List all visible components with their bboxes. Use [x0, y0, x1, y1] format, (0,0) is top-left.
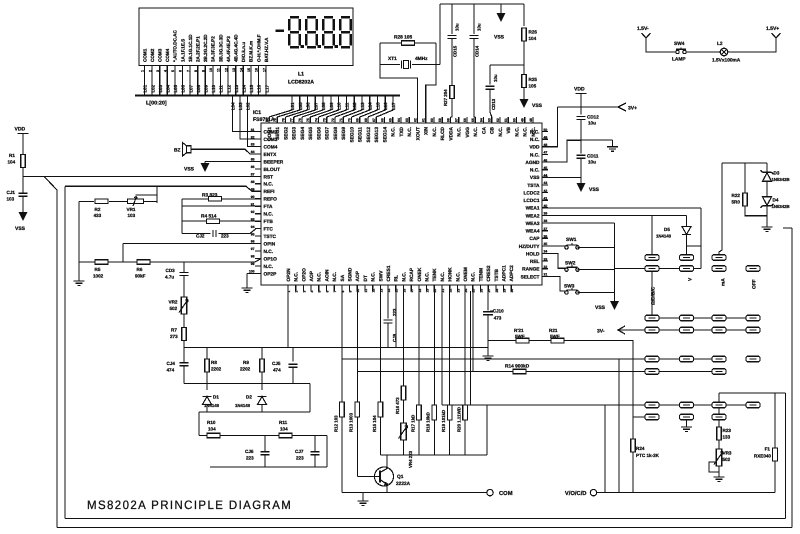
- svg-text:15: 15: [247, 68, 251, 72]
- wire: [744, 163, 746, 193]
- svg-text:5WF: 5WF: [515, 334, 525, 339]
- svg-text:L17: L17: [391, 102, 396, 110]
- resistor R5: [95, 260, 108, 265]
- svg-text:N.C.: N.C.: [264, 249, 274, 255]
- IC1 top pin 75 SEG5: [309, 117, 311, 123]
- wire FTA net: [182, 205, 261, 207]
- LCD display L1 outline: [139, 8, 353, 65]
- svg-text:42: 42: [544, 189, 548, 193]
- wire: [326, 436, 328, 468]
- svg-text:SEG6: SEG6: [316, 127, 322, 140]
- svg-text:N.C.: N.C.: [401, 272, 407, 282]
- LCD pin 4 lead: [166, 65, 168, 95]
- LCD minus sign: [276, 29, 285, 32]
- svg-text:L02: L02: [150, 84, 155, 92]
- IC1 left pin 96 OPIN: [255, 243, 261, 245]
- svg-text:RANGE: RANGE: [522, 267, 540, 273]
- LCD pin 15 lead: [250, 65, 252, 95]
- IC1 top pin 59 RLCD: [441, 117, 443, 123]
- resistor R22: [743, 193, 748, 206]
- svg-text:L14: L14: [242, 84, 247, 92]
- wire HOLD net: [548, 254, 567, 269]
- svg-text:61: 61: [422, 118, 426, 122]
- power symbol VSS at buzzer: [201, 163, 210, 172]
- svg-text:N.C.: N.C.: [440, 272, 446, 282]
- wire: [718, 420, 720, 427]
- IC1 top pin 55 N.C.: [474, 117, 476, 123]
- wire WEA3 net: [548, 222, 615, 224]
- wire: [206, 405, 208, 413]
- ground under VR3: [714, 477, 725, 481]
- svg-text:60: 60: [430, 118, 434, 122]
- svg-text:L05: L05: [298, 102, 303, 110]
- wire: [523, 4, 525, 26]
- capacitor CJ6: [261, 452, 270, 455]
- svg-text:SW1: SW1: [566, 237, 577, 243]
- svg-text:CJ6: CJ6: [245, 449, 254, 454]
- IC1 left pin 91 FTA: [255, 205, 261, 207]
- svg-text:L04: L04: [166, 84, 171, 92]
- svg-text:AOP: AOP: [309, 270, 315, 281]
- ground under row8 col2: [681, 427, 692, 431]
- wire: [206, 348, 208, 360]
- power symbol VSS under CD11: [577, 183, 586, 192]
- IC1 left pin 86 BLOUT: [255, 168, 261, 170]
- svg-text:R16 473: R16 473: [395, 397, 400, 414]
- wire crystal loop: [380, 43, 436, 65]
- IC1 left pin 87 RST: [255, 175, 261, 177]
- svg-text:TSTB: TSTB: [494, 268, 500, 281]
- svg-text:51: 51: [504, 118, 508, 122]
- svg-text:N.C.: N.C.: [425, 272, 431, 282]
- resistor R6: [137, 260, 150, 265]
- svg-text:433: 433: [94, 213, 102, 218]
- svg-text:CD13: CD13: [491, 98, 496, 110]
- LCD pin 14 lead: [242, 65, 244, 95]
- LCD segment bus L[00:20]: [135, 95, 400, 97]
- wire BEEPER net: [205, 160, 261, 162]
- wire: [580, 120, 582, 154]
- IC1 bottom pin 4 AOP: [310, 285, 312, 291]
- svg-text:VR4 223: VR4 223: [408, 450, 413, 468]
- svg-text:32: 32: [544, 265, 548, 269]
- resistor R16: [401, 386, 406, 400]
- svg-text:LAMP: LAMP: [672, 57, 686, 63]
- svg-text:1N4148: 1N4148: [656, 234, 672, 239]
- svg-text:N.C.: N.C.: [407, 127, 413, 137]
- svg-text:66: 66: [380, 118, 384, 122]
- svg-text:10u: 10u: [477, 23, 482, 31]
- svg-text:R14 900kD: R14 900kD: [505, 364, 530, 370]
- svg-text:R18 10kD: R18 10kD: [426, 412, 431, 432]
- wire: [564, 341, 633, 493]
- svg-text:L12: L12: [226, 84, 231, 92]
- svg-text:ADPC2: ADPC2: [509, 265, 515, 282]
- wire: [686, 236, 688, 255]
- IC1 top pin 71 SEG9: [342, 117, 344, 123]
- wire: [314, 436, 316, 452]
- svg-text:99: 99: [251, 262, 255, 266]
- resistor R20: [463, 405, 468, 420]
- wire: [264, 436, 266, 452]
- svg-text:WEA3: WEA3: [526, 221, 540, 227]
- svg-text:65: 65: [389, 118, 393, 122]
- wire: [487, 315, 489, 356]
- resistor R24: [631, 439, 636, 452]
- ground near CD12: [607, 147, 618, 151]
- rotary pad row2 col1: [645, 266, 659, 272]
- wire COM line: [342, 492, 487, 494]
- svg-text:R21: R21: [549, 328, 558, 333]
- lamp L2: [720, 48, 728, 56]
- svg-text:97: 97: [251, 247, 255, 251]
- svg-text:104: 104: [8, 160, 16, 165]
- svg-text:SEG1: SEG1: [275, 127, 281, 140]
- svg-text:N.C.: N.C.: [264, 264, 274, 270]
- svg-text:R20 1.11WD: R20 1.11WD: [457, 407, 462, 432]
- svg-text:104: 104: [208, 427, 216, 432]
- IC1 left pin 97 N.C.: [255, 250, 261, 252]
- resistor R26: [522, 28, 527, 41]
- svg-text:R23: R23: [723, 428, 732, 433]
- svg-text:L14: L14: [368, 102, 373, 110]
- svg-text:4A.4F.4E.P3: 4A.4F.4E.P3: [226, 36, 231, 62]
- svg-text:VSS: VSS: [589, 187, 600, 193]
- potentiometer VR2: [179, 297, 188, 314]
- wire: [604, 405, 606, 493]
- svg-text:49: 49: [544, 135, 548, 139]
- wire rail 417: [633, 416, 658, 418]
- wire: [309, 384, 311, 413]
- IC1 right pin 49 N.C.: [542, 138, 548, 140]
- wire: [144, 200, 158, 202]
- svg-text:R26: R26: [529, 30, 538, 35]
- svg-text:57: 57: [455, 118, 459, 122]
- svg-text:13: 13: [232, 68, 236, 72]
- svg-text:80: 80: [265, 118, 269, 122]
- resistor R12: [340, 402, 345, 417]
- svg-text:N.C.: N.C.: [473, 127, 479, 137]
- wire 3V+ tap: [558, 103, 627, 111]
- IC1 right pin 50 N.C.: [542, 131, 548, 133]
- IC1 top pin 73 SEG7: [326, 117, 328, 123]
- wire: [183, 276, 185, 298]
- IC1 top pin 64 TXD: [400, 117, 402, 123]
- wire: [433, 291, 435, 405]
- svg-text:N.C.: N.C.: [457, 127, 463, 137]
- svg-text:LCDC1: LCDC1: [524, 198, 540, 204]
- wire bus tap L10: [319, 97, 339, 118]
- svg-text:N.C.: N.C.: [531, 127, 537, 137]
- wire bus tap L07: [294, 97, 316, 118]
- svg-text:L15: L15: [375, 102, 380, 110]
- LCD pin 17 lead: [265, 65, 267, 95]
- wire: [341, 291, 343, 402]
- wire: [387, 291, 389, 319]
- svg-text:R5: R5: [95, 267, 101, 272]
- svg-text:5WF: 5WF: [550, 334, 560, 339]
- svg-text:1B.1G.1C.1D: 1B.1G.1C.1D: [188, 34, 193, 62]
- svg-text:VSS: VSS: [15, 226, 26, 232]
- svg-text:CJ2: CJ2: [196, 234, 205, 239]
- svg-text:2: 2: [295, 291, 299, 293]
- svg-text:VDD: VDD: [529, 145, 540, 151]
- svg-text:2: 2: [148, 70, 152, 72]
- wire: [78, 201, 80, 262]
- IC1 top pin 74 SEG6: [318, 117, 320, 123]
- wire: [292, 348, 294, 362]
- wire frame nub: [783, 227, 792, 229]
- svg-text:58: 58: [446, 118, 450, 122]
- svg-text:55: 55: [471, 118, 475, 122]
- resistor R11: [279, 433, 292, 438]
- LCD decimal point 1: [301, 45, 304, 48]
- wire: [449, 291, 451, 405]
- rotary pad row7 col4: [746, 402, 760, 408]
- wire: [774, 461, 776, 493]
- LCD digit 8 #2: [306, 17, 317, 47]
- svg-text:10u: 10u: [588, 121, 596, 126]
- wire: [449, 420, 451, 455]
- svg-text:L05: L05: [173, 84, 178, 92]
- rotary pad row4 col1: [645, 327, 659, 333]
- svg-text:D3: D3: [774, 171, 780, 176]
- svg-text:L08: L08: [196, 84, 201, 92]
- rotary pad row6 col3: [712, 369, 726, 375]
- wire: [718, 466, 720, 477]
- wire: [22, 196, 24, 212]
- svg-text:REL: REL: [530, 259, 540, 265]
- svg-text:DT: DT: [363, 275, 369, 281]
- svg-text:*.AUTO.DC.AC: *.AUTO.DC.AC: [173, 30, 178, 62]
- wire FTB net: [182, 220, 261, 222]
- svg-text:CJ4: CJ4: [167, 361, 176, 366]
- svg-text:R6: R6: [137, 267, 143, 272]
- svg-text:L09: L09: [204, 84, 209, 92]
- svg-text:502: 502: [723, 457, 731, 462]
- svg-text:L13: L13: [234, 84, 239, 92]
- svg-text:N.C.: N.C.: [317, 272, 323, 282]
- wire: [181, 199, 183, 234]
- svg-text:WEA1: WEA1: [526, 206, 540, 212]
- svg-text:3A.3F.3E.P2: 3A.3F.3E.P2: [211, 36, 216, 62]
- wire: [719, 163, 767, 255]
- svg-text:502: 502: [170, 306, 178, 311]
- svg-text:10u: 10u: [588, 160, 596, 165]
- rotary pad row1 col1: [645, 255, 659, 261]
- rotary pad row3 col2: [680, 315, 694, 321]
- IC1 bottom pin 3 OP2O: [302, 285, 304, 291]
- wire rail A: [184, 347, 488, 349]
- svg-text:9: 9: [349, 291, 353, 293]
- svg-text:474: 474: [167, 368, 175, 373]
- wire: [451, 4, 453, 34]
- IC1 bottom pin 21 N.C.: [441, 285, 443, 291]
- wire: [183, 341, 185, 348]
- svg-text:R3 823: R3 823: [202, 192, 218, 198]
- wire: [470, 291, 472, 405]
- wire: [500, 4, 502, 13]
- svg-text:72: 72: [331, 118, 335, 122]
- svg-text:R27 204: R27 204: [443, 89, 448, 106]
- IC1 left pin 100 OP2P: [255, 272, 261, 274]
- resistor R15: [378, 402, 383, 417]
- svg-text:3B.3G.3C.3D: 3B.3G.3C.3D: [218, 34, 223, 62]
- svg-text:34: 34: [544, 250, 548, 254]
- svg-text:N.C.: N.C.: [455, 272, 461, 282]
- wire: [418, 291, 420, 405]
- wire bus tap L05: [277, 97, 300, 118]
- IC1 right pin 35 HZ/DUTY: [542, 245, 548, 247]
- svg-text:WEA2: WEA2: [526, 213, 540, 219]
- svg-text:mA: mA: [721, 278, 727, 286]
- svg-text:RXE040: RXE040: [754, 454, 772, 459]
- IC1 right pin 44 VSS: [542, 176, 548, 178]
- svg-text:L2: L2: [717, 41, 723, 47]
- svg-text:R10: R10: [207, 420, 216, 425]
- wire WEA1 net: [548, 207, 701, 209]
- svg-text:73: 73: [323, 118, 327, 122]
- svg-text:OP2O: OP2O: [301, 268, 307, 282]
- wire: [314, 455, 316, 467]
- rotary pad row7 col3: [712, 402, 726, 408]
- svg-text:REFI: REFI: [264, 189, 276, 195]
- IC1 bottom pin 14 CRES1: [387, 285, 389, 291]
- LCD pin 10 lead: [212, 65, 214, 95]
- svg-text:31: 31: [544, 273, 548, 277]
- IC1 bottom pin 8 SA: [341, 285, 343, 291]
- svg-text:R9: R9: [243, 360, 249, 365]
- svg-text:R2: R2: [95, 207, 101, 212]
- svg-text:AGND: AGND: [525, 160, 540, 166]
- svg-text:L10: L10: [211, 84, 216, 92]
- IC1 top pin 61 XIN: [425, 117, 427, 123]
- svg-text:2A.2F.2E.P1: 2A.2F.2E.P1: [196, 36, 201, 62]
- svg-text:SEG11: SEG11: [358, 127, 364, 143]
- IC1 top pin 68 SEG12: [367, 117, 369, 123]
- wire: [403, 440, 405, 455]
- IC1 bottom pin 16 N.C.: [403, 285, 405, 291]
- IC1 top pin 57 N.C.: [458, 117, 460, 123]
- svg-text:104: 104: [280, 427, 288, 432]
- IC1 top pin 54 CA: [483, 117, 485, 123]
- svg-text:SEG10: SEG10: [349, 127, 355, 143]
- svg-text:1.5V-: 1.5V-: [637, 26, 649, 32]
- svg-text:BAT.HZ.V.A: BAT.HZ.V.A: [264, 37, 269, 62]
- svg-text:VSS: VSS: [530, 175, 540, 181]
- wire rail B: [184, 383, 310, 385]
- capacitor CJ5: [289, 364, 298, 367]
- LCD digit 8 #3: [323, 17, 334, 47]
- svg-text:28: 28: [495, 289, 499, 293]
- svg-text:CD3: CD3: [166, 268, 176, 273]
- svg-text:FTB: FTB: [264, 219, 274, 225]
- wire: [183, 348, 185, 363]
- diode D3 1N5342B zener: [763, 173, 772, 182]
- svg-text:R13 1003: R13 1003: [349, 412, 354, 432]
- wire: [719, 393, 786, 448]
- wire: [362, 493, 364, 501]
- svg-text:1N5342B: 1N5342B: [772, 204, 790, 209]
- wire: [79, 200, 94, 202]
- transistor Q1 2222A: [375, 467, 394, 493]
- svg-text:BLOUT: BLOUT: [264, 167, 281, 173]
- rotary pad row8 col2: [680, 414, 694, 420]
- svg-text:N.C.: N.C.: [523, 127, 529, 137]
- rotary pad row3 col3: [712, 315, 726, 321]
- wire: [614, 223, 616, 301]
- svg-text:HZ/DUTY: HZ/DUTY: [519, 244, 541, 250]
- IC1 right pin 37 WEA4: [542, 230, 548, 232]
- wire: [526, 371, 725, 373]
- IC1 right pin 47 N.C.: [542, 153, 548, 155]
- wire rail 371 R14: [357, 371, 513, 373]
- wire: [651, 215, 653, 254]
- resistor R18: [432, 405, 437, 420]
- IC1 top pin 50 N.C.: [516, 117, 518, 123]
- wire SELECT net: [548, 276, 567, 291]
- svg-text:RCAP: RCAP: [409, 267, 415, 281]
- svg-text:R24: R24: [636, 446, 645, 451]
- svg-text:VR1: VR1: [127, 207, 136, 212]
- svg-text:CJ5: CJ5: [272, 361, 281, 366]
- svg-text:5R0: 5R0: [732, 200, 741, 205]
- svg-text:CB: CB: [490, 126, 496, 133]
- wire: [204, 161, 206, 163]
- IC1 left pin 84 ENTX: [255, 153, 261, 155]
- capacitor CJ4: [180, 363, 189, 366]
- LCD pin 12 lead: [227, 65, 229, 95]
- svg-text:N.C.: N.C.: [391, 127, 397, 137]
- svg-text:8: 8: [194, 70, 198, 72]
- svg-text:L01: L01: [143, 84, 148, 92]
- wire: [64, 186, 66, 518]
- power symbol VSS at CJ1: [19, 212, 28, 221]
- IC1 bottom pin 28 TSTB: [495, 285, 497, 291]
- wire rail C: [199, 411, 310, 413]
- svg-text:L16: L16: [383, 102, 388, 110]
- svg-text:DIO.k.n.u: DIO.k.n.u: [241, 42, 246, 62]
- svg-text:SW2: SW2: [565, 261, 576, 267]
- resistor R25: [522, 75, 527, 88]
- svg-text:77: 77: [290, 118, 294, 122]
- svg-text:RST: RST: [264, 174, 274, 180]
- svg-text:R15 104: R15 104: [372, 415, 377, 432]
- svg-text:VDDA: VDDA: [448, 126, 454, 140]
- IC1 left pin 94 FTC: [255, 228, 261, 230]
- wire: [523, 88, 525, 100]
- LCD pin 11 lead: [220, 65, 222, 95]
- wire: [474, 39, 475, 118]
- svg-text:45: 45: [544, 166, 548, 170]
- svg-text:TSTA: TSTA: [527, 183, 540, 189]
- svg-text:4: 4: [164, 70, 168, 72]
- LCD pin 8 lead: [197, 65, 199, 95]
- wire bus tap L09: [310, 97, 331, 118]
- wire bus tap L03: [240, 97, 261, 140]
- IC1 left pin 95 TSTC: [255, 235, 261, 237]
- switch SW1: [565, 243, 579, 249]
- svg-text:4MHz: 4MHz: [415, 56, 428, 62]
- wire: [580, 94, 582, 115]
- wire: [183, 366, 185, 384]
- svg-text:3V+: 3V+: [628, 106, 637, 112]
- switch SW3: [565, 288, 579, 294]
- wire: [766, 163, 768, 172]
- svg-text:70: 70: [347, 118, 351, 122]
- resistor R9: [260, 359, 265, 372]
- capacitor CJ2: [213, 230, 216, 237]
